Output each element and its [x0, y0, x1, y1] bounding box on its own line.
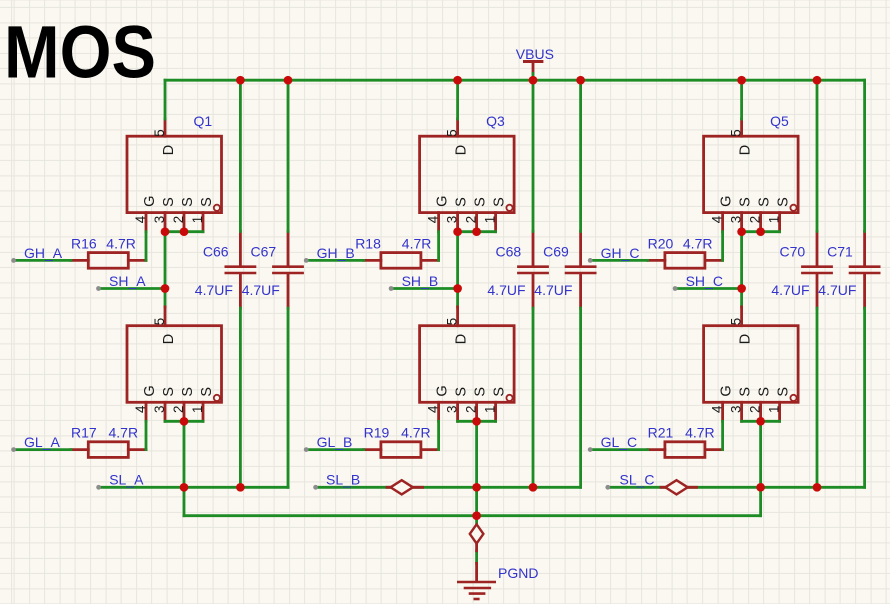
net tie diamond SL_C: [661, 480, 697, 494]
net label SL_B: [326, 472, 360, 488]
junction Q5 source pin3: [737, 227, 746, 236]
svg-text:S: S: [738, 197, 754, 207]
svg-text:S: S: [492, 387, 508, 397]
svg-text:3: 3: [152, 406, 167, 413]
net label GH_A: [24, 245, 63, 261]
value 4.7R of R20: [683, 235, 713, 251]
pin labels G S S S of lower B: [435, 385, 508, 396]
label R21: [648, 425, 674, 441]
svg-text:SL_B: SL_B: [326, 472, 360, 488]
svg-text:S: S: [738, 387, 754, 397]
pin labels G S S S of Q3: [435, 196, 508, 207]
svg-text:5: 5: [152, 129, 167, 136]
svg-text:4.7R: 4.7R: [106, 235, 136, 251]
transistor lower B: [420, 307, 514, 421]
capacitor C68: [517, 231, 549, 308]
wire VBUS to C68: [532, 80, 535, 231]
svg-text:S: S: [161, 387, 177, 397]
pin labels G S S S of Q1: [142, 196, 215, 207]
svg-text:2: 2: [464, 216, 479, 223]
pin 5 of Q5: [729, 129, 744, 136]
wire C69 to SL rail: [579, 308, 582, 487]
svg-text:R18: R18: [355, 235, 381, 251]
wire R21 to gate: [721, 421, 724, 449]
label C69: [543, 243, 569, 259]
value 4.7R of R19: [401, 425, 431, 441]
wire SH_C: [673, 286, 742, 291]
svg-text:4: 4: [710, 405, 725, 413]
wire GL_B: [304, 447, 364, 452]
wire R17 to gate: [145, 421, 148, 449]
value 4.7R of R18: [402, 235, 432, 251]
label C71: [827, 243, 853, 259]
net label SL_C: [620, 471, 655, 487]
svg-text:5: 5: [152, 318, 167, 325]
ground symbol PGND: [457, 563, 496, 599]
junction lower source A: [180, 417, 189, 426]
wire phase node SH_B: [456, 232, 459, 307]
junction VBUS C69: [576, 76, 585, 85]
capacitor C70: [801, 231, 833, 308]
net label GH_B: [317, 245, 355, 261]
wire phase node SH_A: [164, 232, 167, 307]
net label SH_A: [109, 273, 146, 289]
svg-text:G: G: [142, 196, 158, 207]
junction VBUS C70: [813, 76, 822, 85]
wire R19 to gate: [437, 421, 440, 449]
pin numbers 4 3 2 1 of lower B: [426, 405, 498, 413]
resistor R19: [364, 442, 439, 458]
svg-text:5: 5: [445, 129, 460, 136]
net tie diamond SL_B: [387, 480, 423, 494]
wire lower source to bottom rail A: [183, 421, 186, 515]
transistor lower A: [127, 307, 222, 421]
svg-text:Q3: Q3: [486, 113, 505, 129]
svg-text:GH_C: GH_C: [601, 245, 640, 261]
capacitor C66: [225, 231, 257, 308]
resistor R16: [71, 253, 146, 269]
label C68: [496, 243, 522, 259]
wire lower source to bottom rail C: [759, 421, 762, 515]
svg-text:SL_C: SL_C: [620, 471, 655, 487]
svg-text:4.7UF: 4.7UF: [818, 282, 856, 298]
svg-text:GH_A: GH_A: [24, 245, 63, 261]
transistor Q5: [704, 119, 799, 232]
value 4.7UF of C68: [487, 282, 525, 298]
svg-text:R16: R16: [71, 235, 97, 251]
value 4.7R of R17: [109, 425, 139, 441]
pin 5 of lower A: [152, 318, 167, 325]
wire VBUS to C71: [863, 80, 866, 231]
wire R16 to gate: [145, 232, 148, 261]
svg-text:2: 2: [748, 406, 763, 413]
junction lower source B: [472, 417, 481, 426]
pin 5 of Q1: [152, 129, 167, 136]
wire GH_C: [588, 258, 648, 263]
svg-text:4.7R: 4.7R: [109, 425, 139, 441]
wire PGND bottom rail: [184, 514, 761, 517]
svg-text:C70: C70: [780, 243, 806, 259]
wire VBUS to Q5 drain: [740, 80, 743, 119]
svg-text:G: G: [435, 385, 451, 396]
svg-text:4: 4: [426, 405, 441, 413]
pin numbers 4 3 2 1 of Q5: [710, 215, 782, 223]
value 4.7UF of C66: [195, 282, 233, 298]
svg-text:5: 5: [445, 318, 460, 325]
wire lower source bridge B: [458, 420, 496, 423]
wire GL_C: [588, 447, 648, 452]
junction SL_B C68: [529, 483, 538, 492]
svg-text:SL_A: SL_A: [109, 472, 144, 488]
svg-text:PGND: PGND: [498, 565, 538, 581]
svg-text:G: G: [719, 385, 735, 396]
junction SH_B: [453, 284, 462, 293]
wire R20 to gate: [721, 232, 724, 261]
svg-text:GL_C: GL_C: [601, 434, 638, 450]
svg-text:S: S: [473, 387, 489, 397]
capacitor C69: [565, 231, 597, 308]
junction Q5 source pin2: [756, 227, 765, 236]
wire VBUS top rail: [165, 79, 865, 82]
net label VBUS: [516, 46, 554, 62]
svg-text:1: 1: [190, 406, 205, 413]
label C70: [780, 243, 806, 259]
junction SH_A: [161, 284, 170, 293]
wire VBUS to Q3 drain: [456, 80, 459, 119]
svg-text:4.7R: 4.7R: [401, 425, 431, 441]
svg-text:4: 4: [710, 215, 725, 223]
label C66: [203, 243, 229, 259]
svg-text:MOS: MOS: [4, 10, 156, 93]
resistor R18: [364, 253, 439, 269]
pin numbers 4 3 2 1 of lower C: [710, 405, 782, 413]
svg-text:S: S: [199, 197, 215, 207]
svg-text:GL_A: GL_A: [24, 434, 60, 450]
label Q5: [770, 113, 789, 129]
label R17: [71, 425, 97, 441]
junction SL_A C66: [236, 483, 245, 492]
svg-text:1: 1: [483, 406, 498, 413]
label Q3: [486, 113, 505, 129]
junction Q1 source pin3: [161, 227, 170, 236]
wire phase node SH_C: [740, 232, 743, 307]
pin label D of Q3: [454, 145, 470, 155]
svg-text:1: 1: [483, 216, 498, 223]
svg-text:3: 3: [152, 216, 167, 223]
svg-text:2: 2: [171, 216, 186, 223]
svg-text:S: S: [199, 387, 215, 397]
svg-text:S: S: [180, 197, 196, 207]
junction VBUS C68: [529, 76, 538, 85]
svg-text:5: 5: [729, 129, 744, 136]
junction SL_A lower source: [180, 483, 189, 492]
svg-text:C68: C68: [496, 243, 522, 259]
svg-text:S: S: [473, 197, 489, 207]
label R19: [364, 425, 390, 441]
svg-text:C69: C69: [543, 243, 569, 259]
svg-text:2: 2: [464, 406, 479, 413]
label Q1: [194, 113, 213, 129]
resistor R20: [648, 253, 723, 269]
pin 5 of lower B: [445, 318, 460, 325]
net label GL_A: [24, 434, 60, 450]
wire lower source to bottom rail B: [475, 421, 478, 515]
svg-text:D: D: [454, 145, 470, 155]
value 4.7UF of C69: [534, 282, 572, 298]
capacitor C71: [849, 231, 881, 308]
pin labels G S S S of Q5: [719, 196, 792, 207]
wire C66 to SL rail: [239, 308, 242, 487]
wire C67 to SL rail: [287, 308, 290, 487]
junction VBUS C66: [236, 76, 245, 85]
svg-text:GL_B: GL_B: [317, 434, 353, 450]
capacitor C67: [272, 231, 304, 308]
wire C70 to SL rail: [816, 308, 819, 487]
net label GH_C: [601, 245, 640, 261]
pin 5 of lower C: [729, 318, 744, 325]
svg-text:C67: C67: [251, 243, 277, 259]
value 4.7R of R16: [106, 235, 136, 251]
svg-text:SH_C: SH_C: [686, 273, 723, 289]
svg-text:S: S: [454, 387, 470, 397]
label C67: [251, 243, 277, 259]
wire lower source bridge A: [165, 420, 203, 423]
svg-text:4.7R: 4.7R: [683, 235, 713, 251]
label R20: [648, 235, 674, 251]
junction SL_C C70: [813, 483, 822, 492]
svg-text:1: 1: [190, 216, 205, 223]
svg-text:3: 3: [445, 406, 460, 413]
svg-text:D: D: [161, 334, 177, 344]
svg-text:4.7UF: 4.7UF: [242, 282, 280, 298]
value 4.7R of R21: [685, 425, 715, 441]
svg-text:C71: C71: [827, 243, 853, 259]
net label GL_C: [601, 434, 638, 450]
junction VBUS C67: [284, 76, 293, 85]
svg-text:R19: R19: [364, 425, 390, 441]
resistor R17: [71, 442, 146, 458]
wire GH_A: [11, 258, 71, 263]
svg-text:G: G: [719, 196, 735, 207]
wire SL_A rail: [96, 485, 288, 490]
svg-text:S: S: [492, 197, 508, 207]
wire PGND drop: [475, 516, 478, 564]
svg-text:SH_B: SH_B: [402, 273, 439, 289]
svg-text:D: D: [454, 334, 470, 344]
wire Q1 source bridge: [165, 230, 203, 233]
label R18: [355, 235, 381, 251]
pin label D of lower B: [454, 334, 470, 344]
junction Q3 source pin3: [453, 227, 462, 236]
wire VBUS to Q1 drain: [164, 80, 167, 119]
svg-text:5: 5: [729, 318, 744, 325]
svg-text:3: 3: [729, 406, 744, 413]
wire GH_B: [304, 258, 364, 263]
svg-text:4: 4: [133, 215, 148, 223]
svg-text:S: S: [757, 197, 773, 207]
pin numbers 4 3 2 1 of lower A: [133, 405, 205, 413]
svg-text:S: S: [776, 197, 792, 207]
svg-text:D: D: [738, 145, 754, 155]
svg-text:3: 3: [445, 216, 460, 223]
label R16: [71, 235, 97, 251]
wire Q3 source bridge: [458, 230, 496, 233]
net label SH_C: [686, 273, 723, 289]
wire SH_B: [389, 286, 458, 291]
pin labels G S S S of lower C: [719, 385, 792, 396]
wire C71 to SL rail: [863, 308, 866, 487]
pin labels G S S S of lower A: [142, 385, 215, 396]
svg-text:1: 1: [767, 216, 782, 223]
power symbol VBUS: [523, 62, 543, 81]
wire GL_A: [11, 447, 71, 452]
wire C68 to SL rail: [532, 308, 535, 487]
value 4.7UF of C70: [771, 282, 809, 298]
net label PGND: [498, 565, 538, 581]
wire SH_A: [96, 286, 165, 291]
svg-text:R20: R20: [648, 235, 674, 251]
junction SL_C lower source: [756, 483, 765, 492]
svg-text:R17: R17: [71, 425, 97, 441]
svg-text:S: S: [454, 197, 470, 207]
svg-text:2: 2: [171, 406, 186, 413]
pin label D of lower A: [161, 334, 177, 344]
value 4.7UF of C71: [818, 282, 856, 298]
junction SH_C: [737, 284, 746, 293]
svg-text:4.7UF: 4.7UF: [487, 282, 525, 298]
svg-text:D: D: [161, 145, 177, 155]
junction Q1 source pin2: [180, 227, 189, 236]
svg-text:1: 1: [767, 406, 782, 413]
pin label D of Q5: [738, 145, 754, 155]
wire VBUS to C67: [287, 80, 290, 231]
pin numbers 4 3 2 1 of Q3: [426, 215, 498, 223]
svg-text:S: S: [180, 387, 196, 397]
svg-text:VBUS: VBUS: [516, 46, 554, 62]
resistor R21: [648, 442, 723, 458]
pin label D of lower C: [738, 334, 754, 344]
svg-text:4.7R: 4.7R: [685, 425, 715, 441]
junction VBUS Q3 drain: [453, 76, 462, 85]
wire VBUS to C66: [239, 80, 242, 231]
svg-text:4.7UF: 4.7UF: [771, 282, 809, 298]
pin label D of Q1: [161, 145, 177, 155]
svg-text:GH_B: GH_B: [317, 245, 355, 261]
junction PGND bottom rail: [472, 511, 481, 520]
svg-text:Q1: Q1: [194, 113, 213, 129]
svg-text:S: S: [161, 197, 177, 207]
wire VBUS to C69: [579, 80, 582, 231]
wire Q5 source bridge: [742, 230, 780, 233]
transistor Q1: [127, 119, 222, 232]
svg-text:S: S: [776, 387, 792, 397]
svg-text:3: 3: [729, 216, 744, 223]
svg-text:D: D: [738, 334, 754, 344]
wire R18 to gate: [437, 232, 440, 261]
junction Q3 source pin2: [472, 227, 481, 236]
pin 5 of Q3: [445, 129, 460, 136]
svg-text:SH_A: SH_A: [109, 273, 146, 289]
net label SL_A: [109, 472, 144, 488]
title MOS: [4, 10, 156, 93]
svg-text:R21: R21: [648, 425, 674, 441]
junction lower source C: [756, 417, 765, 426]
wire lower source bridge C: [742, 420, 780, 423]
svg-text:4.7UF: 4.7UF: [534, 282, 572, 298]
svg-text:4: 4: [133, 405, 148, 413]
svg-text:2: 2: [748, 216, 763, 223]
svg-text:4.7R: 4.7R: [402, 235, 432, 251]
svg-text:4.7UF: 4.7UF: [195, 282, 233, 298]
junction SL_B lower source: [472, 483, 481, 492]
svg-text:G: G: [435, 196, 451, 207]
svg-text:G: G: [142, 385, 158, 396]
transistor lower C: [704, 307, 799, 421]
wire VBUS to C70: [816, 80, 819, 231]
svg-text:S: S: [757, 387, 773, 397]
net label GL_B: [317, 434, 353, 450]
junction VBUS Q5 drain: [737, 76, 746, 85]
svg-text:Q5: Q5: [770, 113, 789, 129]
net tie diamond PGND: [470, 524, 484, 551]
wire SL_C rail: [605, 485, 864, 490]
svg-text:4: 4: [426, 215, 441, 223]
svg-text:C66: C66: [203, 243, 229, 259]
wire SL_B rail: [313, 485, 580, 490]
net label SH_B: [402, 273, 439, 289]
value 4.7UF of C67: [242, 282, 280, 298]
pin numbers 4 3 2 1 of Q1: [133, 215, 205, 223]
transistor Q3: [420, 119, 514, 232]
